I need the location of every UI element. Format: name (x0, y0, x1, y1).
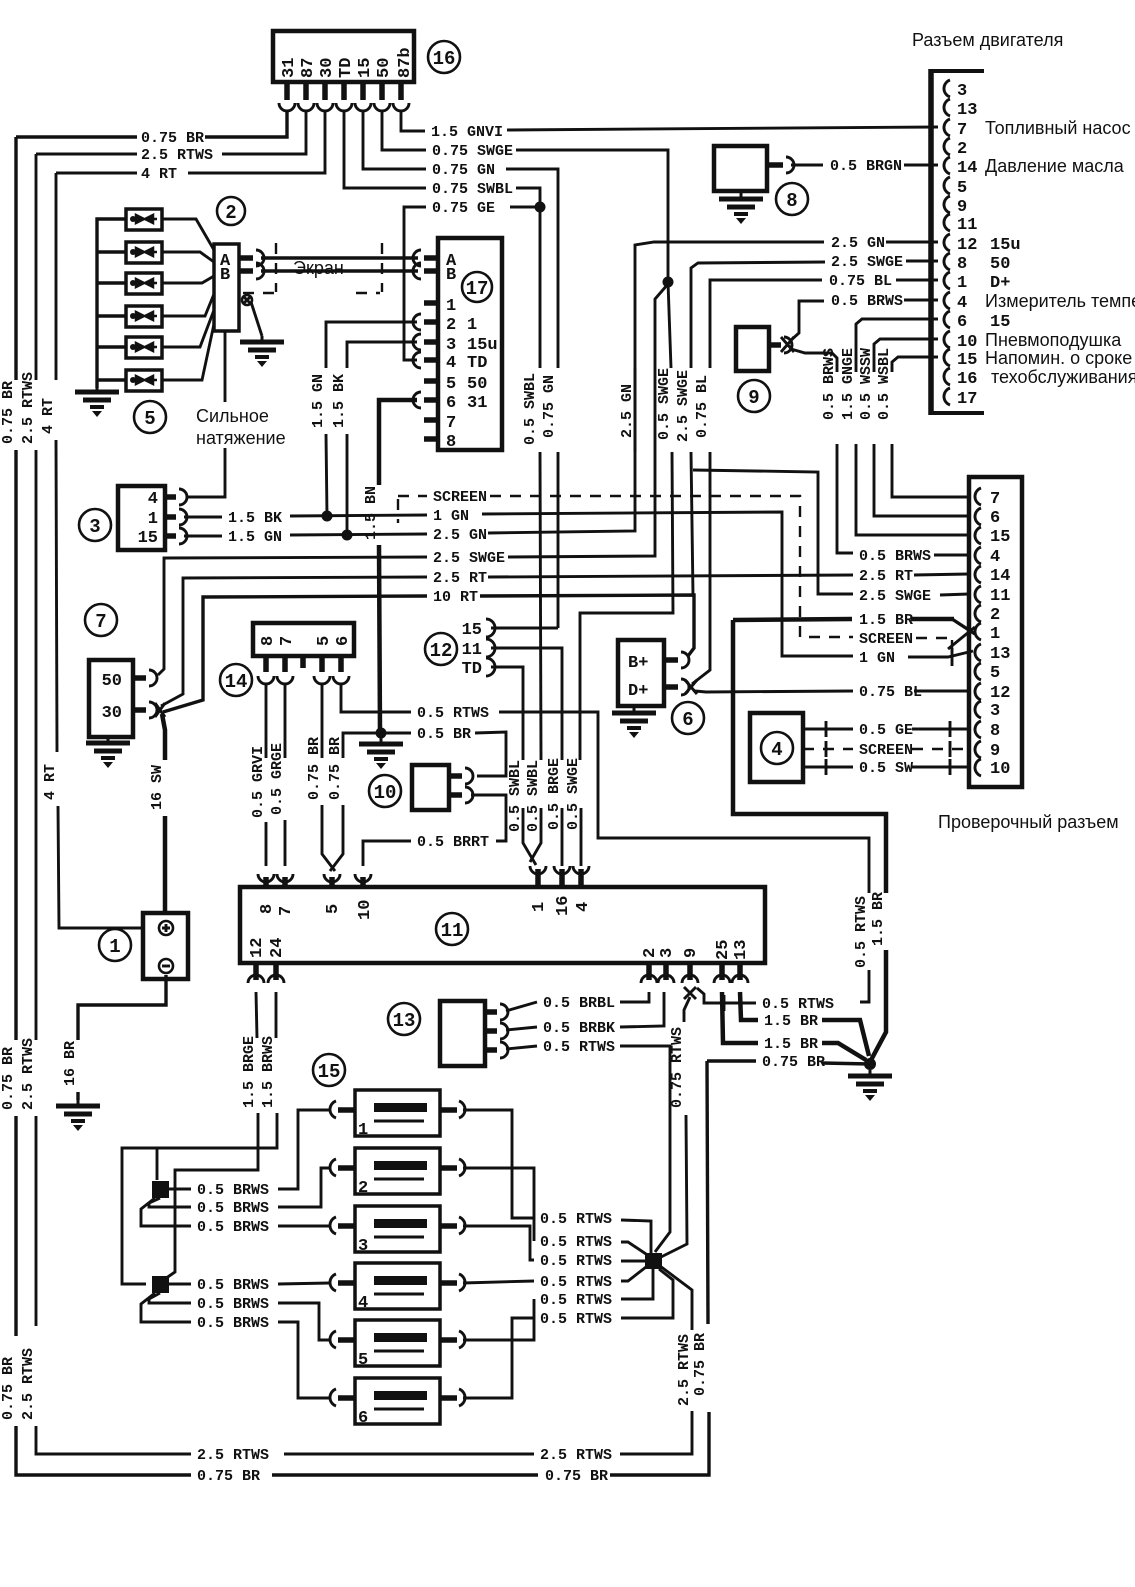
wire 0.5 GE component 4 to test connector pin 8 (803, 721, 969, 739)
svg-text:Напомин. о сроке: Напомин. о сроке (985, 348, 1132, 368)
test connector pin 1 (975, 623, 1000, 644)
svg-text:10: 10 (990, 760, 1010, 779)
svg-text:0.5 BRWS: 0.5 BRWS (197, 1277, 269, 1294)
wire 0.5 BRWS row 4 to fuse F4 (169, 1277, 330, 1294)
component 6 (alternator B+/D+) (618, 640, 664, 706)
svg-text:15: 15 (138, 529, 158, 548)
wire 16 BR battery minus to ground (62, 975, 166, 1100)
svg-text:0.75 BL: 0.75 BL (859, 684, 922, 701)
svg-text:Давление масла: Давление масла (985, 156, 1125, 176)
engine connector pin 13 (944, 99, 977, 120)
circled 5 (134, 401, 166, 433)
wire 0.5 BRWS row 5 to fuse F5 (149, 1293, 330, 1340)
svg-text:0.5 BRWS: 0.5 BRWS (197, 1296, 269, 1313)
svg-text:3: 3 (658, 948, 677, 958)
junction dot 0.75 SWGE / 0.5 SWGE (663, 277, 674, 288)
svg-text:0.5 BRBL: 0.5 BRBL (543, 995, 615, 1012)
svg-text:0.5 SWGE: 0.5 SWGE (656, 368, 673, 440)
wire 0.5 SWGE (junction down to component 11 pin 4) (565, 282, 673, 866)
svg-text:0.5 SW: 0.5 SW (859, 760, 913, 777)
circled 6 (672, 702, 704, 734)
svg-text:13: 13 (957, 101, 977, 120)
svg-text:2.5 RT: 2.5 RT (859, 568, 913, 585)
test connector pin 7 (975, 488, 1000, 509)
svg-text:16 BR: 16 BR (62, 1041, 79, 1086)
wire 0.5 WSBL engine pin 15 to test connector pin 7 (876, 348, 969, 497)
svg-text:B+: B+ (628, 654, 648, 673)
engine connector pin 16 (944, 367, 1135, 389)
svg-text:3: 3 (957, 82, 967, 101)
circled 7 (85, 604, 117, 636)
svg-text:1: 1 (148, 510, 158, 529)
svg-text:TD: TD (462, 660, 482, 679)
svg-text:0.5 BRBK: 0.5 BRBK (543, 1020, 615, 1037)
svg-text:16: 16 (957, 370, 977, 389)
circled 16 (428, 41, 460, 73)
svg-text:15u: 15u (990, 236, 1021, 255)
wire 0.5 RTWS fuse F4 right to star (463, 1267, 646, 1291)
svg-text:2: 2 (990, 606, 1000, 625)
svg-text:1.5 GNGE: 1.5 GNGE (840, 348, 857, 420)
wire component 2 bottom to component 3 pin 4 (186, 331, 225, 497)
connector 12 terminal 11 (462, 639, 563, 866)
component 2 (interference suppression box A/B) (214, 244, 239, 331)
svg-text:16: 16 (554, 896, 573, 916)
svg-text:11: 11 (441, 920, 464, 942)
fuse F2 (330, 1148, 465, 1198)
svg-text:11: 11 (462, 641, 482, 660)
svg-text:6: 6 (446, 394, 456, 413)
svg-text:4: 4 (148, 490, 158, 509)
engine connector pin 2 (944, 138, 967, 159)
engine connector pin 15 (service reminder) (944, 348, 1132, 370)
svg-text:5: 5 (315, 636, 334, 646)
fuse F3 (330, 1206, 465, 1256)
svg-text:1.5 BN: 1.5 BN (363, 486, 380, 540)
svg-text:5: 5 (144, 408, 155, 430)
test connector pin 9 (975, 741, 1000, 761)
svg-text:1.5 BR: 1.5 BR (859, 612, 913, 629)
wire 0.5 WSSW engine pin 10 to test connector pin 6 (858, 339, 969, 516)
component 11 top pin 10 (355, 874, 375, 920)
svg-text:87: 87 (299, 58, 318, 78)
svg-text:2.5 SWGE: 2.5 SWGE (675, 370, 692, 442)
ground (battery minus) (56, 1100, 100, 1131)
svg-text:1: 1 (990, 625, 1000, 644)
svg-text:0.75 BR: 0.75 BR (306, 737, 323, 800)
svg-text:4 RT: 4 RT (40, 398, 57, 434)
svg-text:3: 3 (990, 702, 1000, 721)
engine connector pin 1 (D+) (944, 272, 1010, 293)
component 11 top pin 1 with crossed wires (530, 866, 549, 912)
wire 1.5 BRWS comp 11 pin 24 to fuse feed 1 (122, 992, 277, 1284)
engine connector pin 14 (oil pressure) (944, 156, 1125, 178)
component 11 top pin 7 (277, 874, 296, 916)
left bus wire 2.5 RTWS (vertical, full height) (20, 154, 110, 1454)
label Сильное натяжение (196, 406, 286, 448)
distribution block (square junction 2) (152, 1276, 169, 1293)
wire 0.5 GRGE comp 14 pin 7 to comp 11 pin 7 (269, 684, 286, 866)
wire 0.5 RTWS fuse F5 right to star (463, 1269, 653, 1340)
engine connector pin 11 (944, 214, 977, 235)
svg-text:14: 14 (990, 567, 1010, 586)
wire 0.5 BRBL comp 13 pin 1 to comp 11 pin 2 (506, 992, 649, 1012)
component 7 (starter terminals 50/30) (89, 660, 133, 737)
circled 9 (738, 380, 770, 412)
ground (component 6) (612, 707, 656, 738)
wire 1.5 BR comp 11 pin 25 to main ground junction (722, 992, 866, 1060)
svg-text:12: 12 (430, 640, 453, 662)
test connector pin 2 (975, 605, 1000, 625)
svg-text:1: 1 (446, 297, 456, 316)
svg-text:87b: 87b (396, 47, 415, 78)
wire 1.5 GNVI from relay pin 87b to engine connector pin 7 (401, 111, 938, 141)
component 11 top pin 8 (258, 874, 277, 914)
wire 0.5 RTWS comp 13 pin 3 down to junction block (506, 1039, 670, 1252)
svg-text:0.5 RTWS: 0.5 RTWS (417, 705, 489, 722)
svg-text:0.5 RTWS: 0.5 RTWS (540, 1234, 612, 1251)
engine connector pin 5 (944, 177, 967, 198)
svg-text:0.5 BRWS: 0.5 BRWS (831, 293, 903, 310)
circled 2 (217, 197, 245, 225)
wire 0.5 BRBK comp 13 pin 2 to comp 11 pin 3 (506, 992, 664, 1037)
test connector pin 15 (975, 527, 1010, 547)
circled 12 (425, 633, 457, 665)
svg-text:1.5 BK: 1.5 BK (331, 374, 348, 428)
component 11 top pin 5 with crossed wires (324, 874, 343, 914)
relay K16 (ignition/load relay) (273, 31, 415, 82)
svg-text:2.5 RTWS: 2.5 RTWS (197, 1447, 269, 1464)
circled 10 (369, 775, 401, 807)
svg-text:0.5 BRWS: 0.5 BRWS (859, 548, 931, 565)
svg-text:31: 31 (467, 394, 487, 413)
svg-text:7: 7 (278, 636, 297, 646)
wire 0.5 BRGN component 8 to engine pin 14 (791, 158, 938, 175)
svg-text:0.5 RTWS: 0.5 RTWS (540, 1274, 612, 1291)
svg-text:15: 15 (462, 621, 482, 640)
svg-text:10 RT: 10 RT (433, 589, 478, 606)
component 11 bottom pin 12 (248, 938, 267, 983)
svg-text:B: B (220, 266, 230, 285)
svg-text:SCREEN: SCREEN (433, 489, 487, 506)
svg-text:0.75 RTWS: 0.75 RTWS (669, 1027, 686, 1108)
svg-text:0.5 SWGE: 0.5 SWGE (565, 758, 582, 830)
svg-text:4: 4 (446, 354, 456, 373)
connector 12 terminal 15 (462, 619, 558, 640)
component 6 pin B+ socket (664, 652, 689, 668)
circled 3 (79, 509, 111, 541)
svg-text:8: 8 (446, 433, 456, 452)
wire 0.75 SWBL from relay pin TD down to component 11 pin 1 (344, 111, 541, 862)
svg-text:Сильное: Сильное (196, 406, 269, 426)
svg-text:2.5 SWGE: 2.5 SWGE (433, 550, 505, 567)
svg-text:2.5 GN: 2.5 GN (433, 527, 487, 544)
engine connector pin 9 (944, 196, 967, 217)
svg-text:0.5 BRRT: 0.5 BRRT (417, 834, 489, 851)
wire 2.5 SWGE (comp 7 pin 50 to junction) (158, 284, 668, 675)
svg-text:1 GN: 1 GN (433, 508, 469, 525)
svg-text:TD: TD (337, 58, 356, 78)
svg-text:0.75 BR: 0.75 BR (197, 1468, 260, 1485)
svg-text:0.75 BR: 0.75 BR (0, 1357, 17, 1420)
test connector (Проверочный разъем) (969, 477, 1022, 787)
svg-text:3: 3 (446, 336, 456, 355)
svg-text:8: 8 (258, 904, 277, 914)
svg-text:13: 13 (393, 1010, 416, 1032)
svg-text:9: 9 (957, 198, 967, 217)
component 2 pin B socket (239, 263, 264, 279)
component 7 pin 50 socket (133, 670, 157, 686)
wire 0.75 RTWS comp 11 pin 9 to junction block (661, 997, 690, 1257)
svg-text:Топливный насос: Топливный насос (985, 118, 1131, 138)
wire 0.75 GE from connector 17 pin 4 to SWBL junction (404, 200, 546, 360)
svg-text:2: 2 (446, 316, 456, 335)
svg-text:14: 14 (957, 159, 977, 178)
svg-text:3: 3 (89, 516, 100, 538)
svg-text:2: 2 (225, 202, 236, 224)
svg-text:1.5 BRGE: 1.5 BRGE (241, 1036, 258, 1108)
connector 12 terminal TD (462, 658, 542, 865)
svg-text:8: 8 (990, 722, 1000, 741)
component 1 (battery) (143, 913, 188, 979)
svg-text:8: 8 (957, 255, 967, 274)
component 4 (shielded sensor box) (750, 713, 803, 782)
svg-text:50: 50 (467, 375, 487, 394)
svg-text:0.5 RTWS: 0.5 RTWS (540, 1311, 612, 1328)
svg-text:30: 30 (102, 704, 122, 723)
svg-text:9: 9 (682, 948, 701, 958)
circled 13 (388, 1003, 420, 1035)
component 7 pin 30 socket with crossing wires (133, 702, 165, 718)
svg-text:4 RT: 4 RT (42, 764, 59, 800)
svg-text:0.5 BRWS: 0.5 BRWS (197, 1182, 269, 1199)
svg-text:6: 6 (682, 709, 693, 731)
fuse F5 (330, 1320, 465, 1370)
component 2 case contact (circle-x) with ground (242, 295, 262, 336)
circled 17 (462, 272, 492, 302)
svg-text:2.5 RT: 2.5 RT (433, 570, 487, 587)
wire 0.5 RTWS fuse F2 right to star (463, 1168, 646, 1254)
svg-text:17: 17 (957, 390, 977, 409)
component 11 bottom pin 3 (658, 948, 677, 983)
wire 0.5 BRWS row 6 to fuse F6 (141, 1293, 330, 1398)
wire 0.75 GN from relay pin 15 down to connector 12 (363, 111, 558, 628)
engine connector pin 7 (fuel pump) (944, 118, 1131, 140)
svg-text:5: 5 (358, 1351, 368, 1370)
svg-text:1.5 BR: 1.5 BR (764, 1036, 818, 1053)
svg-text:0.75 SWBL: 0.75 SWBL (432, 181, 513, 198)
svg-text:SCREEN: SCREEN (859, 631, 913, 648)
svg-text:13: 13 (990, 645, 1010, 664)
svg-text:1.5 GN: 1.5 GN (310, 374, 327, 428)
svg-text:Измеритель темпе: Измеритель темпе (985, 291, 1135, 311)
svg-text:0.5 SWBL: 0.5 SWBL (522, 373, 539, 445)
engine connector pin 10 (air bag) (944, 330, 1122, 352)
wire 0.5 BRWS component 9 up to engine pin 4 (790, 293, 938, 341)
svg-text:0.75 BL: 0.75 BL (829, 273, 892, 290)
component 2 pin A socket (239, 250, 264, 266)
svg-text:0.5 BRWS: 0.5 BRWS (197, 1315, 269, 1332)
svg-text:1.5 BRWS: 1.5 BRWS (260, 1036, 277, 1108)
svg-text:11: 11 (990, 587, 1010, 606)
svg-text:1: 1 (467, 316, 477, 335)
svg-text:Экран: Экран (293, 258, 344, 278)
svg-text:0.5 BRWS: 0.5 BRWS (197, 1219, 269, 1236)
svg-text:0.75 GE: 0.75 GE (432, 200, 495, 217)
svg-text:0.5 BRGN: 0.5 BRGN (830, 158, 902, 175)
wire 0.75 SWGE from relay pin 50 down to junction (382, 111, 668, 282)
svg-text:B: B (446, 266, 456, 285)
circled 4 (761, 732, 793, 764)
circled 14 (220, 664, 252, 696)
svg-text:12: 12 (957, 236, 977, 255)
svg-text:0.75 SWGE: 0.75 SWGE (432, 143, 513, 160)
wire 1.5 GNGE engine pin 6 to test connector pin 15 (840, 319, 969, 535)
wire 10 RT (comp 7 pin 30 to alternator B+) (163, 589, 694, 712)
wire 1.5 BRGE comp 11 pin 12 to fuse feed 2 (162, 992, 258, 1281)
svg-text:0.75 BR: 0.75 BR (0, 381, 17, 444)
left bus wire 0.75 BR (vertical, full height) (0, 137, 135, 1475)
svg-text:1: 1 (957, 274, 967, 293)
svg-text:9: 9 (990, 742, 1000, 761)
wire 1.5 BN connector 17 pin 6 to ground junction (363, 400, 417, 733)
test connector pin 12 (975, 683, 1010, 703)
ground (component 8) (719, 193, 763, 224)
fuse F4 (330, 1263, 465, 1313)
wire 4 RT from relay pin 30 to left bus (56, 111, 325, 183)
svg-text:6: 6 (334, 636, 353, 646)
svg-text:50: 50 (102, 672, 122, 691)
engine connector pin 6 (15) (944, 311, 1010, 332)
svg-text:0.5 RTWS: 0.5 RTWS (543, 1039, 615, 1056)
circled 8 (776, 183, 808, 215)
svg-text:12: 12 (990, 684, 1010, 703)
svg-text:0.75 BR: 0.75 BR (762, 1054, 825, 1071)
svg-text:5: 5 (324, 904, 343, 914)
svg-text:0.5 BRWS: 0.5 BRWS (197, 1200, 269, 1217)
engine connector bar (929, 69, 984, 415)
test connector pin 11 (975, 586, 1010, 606)
svg-text:2.5 RTWS: 2.5 RTWS (676, 1334, 693, 1406)
svg-text:TD: TD (467, 354, 487, 373)
svg-text:3: 3 (358, 1237, 368, 1256)
component 10 (time clock) (412, 765, 473, 810)
svg-text:0.5 RTWS: 0.5 RTWS (540, 1292, 612, 1309)
svg-text:2.5 GN: 2.5 GN (619, 384, 636, 438)
svg-text:1: 1 (530, 902, 549, 912)
ground (diode bus) (75, 386, 119, 417)
component 13 (hazard/turn relay) (440, 1001, 508, 1066)
component 11 (main instrument cluster) (240, 887, 765, 963)
wire 0.5 RTWS fuse F1 right to star (463, 1110, 651, 1253)
svg-text:4: 4 (771, 739, 782, 761)
svg-text:0.75 BR: 0.75 BR (141, 130, 204, 147)
svg-text:1: 1 (358, 1121, 368, 1140)
wire 0.75 BL D+ to test connector pin 12 (695, 684, 969, 701)
component 3 pin sockets (165, 489, 187, 544)
svg-text:10: 10 (957, 333, 977, 352)
svg-text:5: 5 (957, 179, 967, 198)
wire 0.5 BR dot junction to ground and component 10 pin 1 (376, 726, 507, 776)
component 11 top pin 4 (573, 866, 593, 912)
wire A to connector 17 pin A (261, 256, 418, 259)
svg-text:D+: D+ (628, 682, 648, 701)
svg-text:2.5 RTWS: 2.5 RTWS (141, 147, 213, 164)
engine connector pin 4 (temperature gauge) (944, 291, 1135, 313)
svg-text:0.5 BRWS: 0.5 BRWS (821, 348, 838, 420)
wire component 3 pin 15: 1.5 GN / 2.5 GN to engine connector pin 12 (184, 235, 938, 546)
svg-text:8: 8 (259, 636, 278, 646)
svg-text:16: 16 (433, 48, 456, 70)
connector 17 pin sockets (413, 250, 438, 439)
svg-text:1.5 GN: 1.5 GN (228, 529, 282, 546)
wire 0.75 BR comp 14 pin 5 to comp 11 pin 5 (306, 684, 335, 871)
svg-text:2.5 RTWS: 2.5 RTWS (540, 1447, 612, 1464)
component 14 (instrument cluster plug) (253, 623, 354, 656)
svg-text:5: 5 (990, 664, 1000, 683)
test connector pin 6 (975, 508, 1000, 528)
wire 16 SW (comp 7 pin 30 to battery +) (149, 714, 166, 911)
svg-text:15: 15 (990, 528, 1010, 547)
wire 0.5 GRVI comp 14 pin 8 to comp 11 pin 8 (250, 684, 267, 866)
svg-text:0.5 RTWS: 0.5 RTWS (540, 1253, 612, 1270)
svg-text:2.5 SWGE: 2.5 SWGE (859, 588, 931, 605)
wire 0.5 BRWS component 9 down to test connector pin 4 (791, 348, 969, 565)
wire B to connector 17 pin B (261, 269, 418, 272)
svg-text:0.5 GRGE: 0.5 GRGE (269, 743, 286, 815)
ground (main junction) (848, 1070, 892, 1101)
component 14 pin stubs and sockets (258, 656, 349, 684)
svg-text:0.75 BR: 0.75 BR (692, 1333, 709, 1396)
left wire 4 RT (vertical to battery +) (40, 173, 143, 928)
wire 1.5 BR comp 11 pin 13 to main ground junction (740, 992, 869, 1056)
svg-text:50: 50 (375, 58, 394, 78)
svg-text:0.5 BRGE: 0.5 BRGE (546, 758, 563, 830)
svg-text:2.5 RTWS: 2.5 RTWS (20, 1348, 37, 1420)
diode bus wire (left) (97, 219, 126, 388)
svg-text:6: 6 (990, 509, 1000, 528)
test connector pin 3 (975, 701, 1000, 721)
engine connector pin 12 (15u) (944, 234, 1021, 255)
RTWS star junction block (645, 1253, 662, 1269)
component 6 pin D+ socket with crossing wires (664, 679, 697, 695)
svg-text:12: 12 (248, 938, 267, 958)
circled 11 (436, 913, 468, 945)
wire connector 17 pin 3 (1.5 BK) down to junction dot (331, 342, 417, 541)
fuse F1 (330, 1090, 465, 1140)
wire 0.5 RTWS comp 14 pin 6 to comp 11 pin 9 (341, 684, 869, 1013)
svg-text:4 RT: 4 RT (141, 166, 177, 183)
component 3 (ignition switch) (118, 486, 165, 550)
svg-text:15u: 15u (467, 336, 498, 355)
svg-text:9: 9 (748, 387, 759, 409)
svg-text:0.5 GE: 0.5 GE (859, 722, 913, 739)
svg-text:1: 1 (109, 936, 120, 958)
wire component 3 pin 1: 1.5 BK / 1 GN to test connector pin 13 (184, 508, 973, 667)
svg-text:31: 31 (280, 58, 299, 78)
wire 0.5 RTWS vertical to ground junction (853, 896, 870, 968)
wire 0.5 BRWS row 2 to fuse F2 (149, 1168, 330, 1217)
svg-text:натяжение: натяжение (196, 428, 286, 448)
svg-text:10: 10 (356, 900, 375, 920)
svg-text:2: 2 (957, 140, 967, 159)
svg-text:0.75 GN: 0.75 GN (541, 375, 558, 438)
svg-text:0.5 RTWS: 0.5 RTWS (762, 996, 834, 1013)
component 11 bottom pin 24 (268, 938, 287, 983)
svg-text:2.5 SWGE: 2.5 SWGE (831, 254, 903, 271)
component 11 bottom pin 2 (641, 948, 660, 983)
svg-text:техобслуживания: техобслуживания (991, 367, 1135, 387)
